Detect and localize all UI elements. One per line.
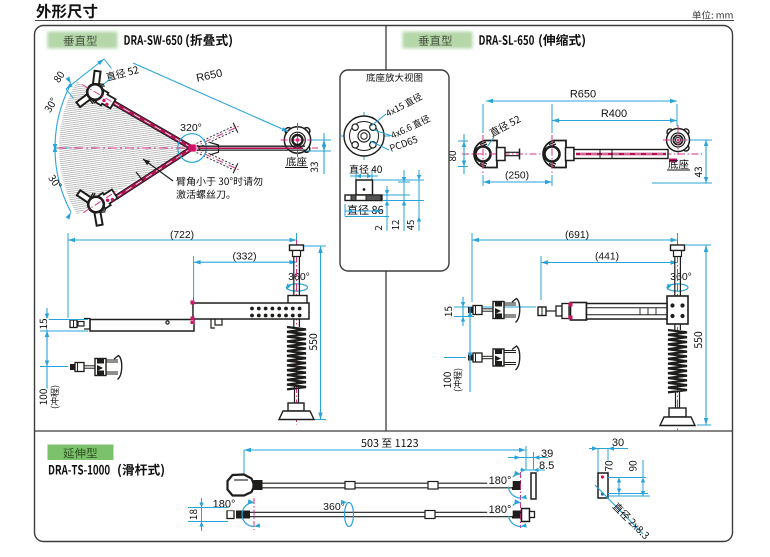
svg-text:39: 39 xyxy=(541,448,553,460)
svg-text:(722): (722) xyxy=(170,230,194,241)
svg-text:8.5: 8.5 xyxy=(539,460,554,472)
svg-text:180°: 180° xyxy=(489,475,512,487)
svg-text:R650: R650 xyxy=(570,89,596,101)
svg-text:320°: 320° xyxy=(180,122,202,134)
svg-text:30: 30 xyxy=(612,437,624,449)
svg-text:180°: 180° xyxy=(489,504,512,516)
svg-text:(691): (691) xyxy=(565,230,589,241)
svg-text:(250): (250) xyxy=(505,171,529,182)
svg-text:180°: 180° xyxy=(213,499,236,511)
svg-text:R400: R400 xyxy=(601,108,627,120)
svg-text:(441): (441) xyxy=(595,252,619,263)
svg-text:(332): (332) xyxy=(232,252,256,263)
